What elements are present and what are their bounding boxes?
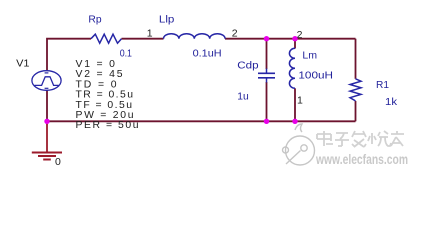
label Cdp (237, 60, 259, 71)
svg-text:100uH: 100uH (298, 71, 333, 82)
wire Cdp bottom lead (266, 82, 268, 121)
svg-text:1k: 1k (385, 97, 398, 108)
node 1 pin number Lm bottom (297, 95, 303, 107)
svg-text:Rp: Rp (88, 15, 102, 26)
wire R1 top drop (355, 39, 357, 79)
svg-text:www.elecfans.com: www.elecfans.com (315, 151, 408, 167)
watermark chinese text 电子发烧友 (317, 131, 404, 147)
wire Rp to Llp (122, 38, 164, 40)
resistor Rp (91, 34, 122, 43)
svg-text:1u: 1u (237, 91, 249, 102)
label 0 ground (55, 156, 61, 168)
watermark logo circle (283, 124, 315, 165)
value 0.1 (120, 48, 133, 59)
wire Llp to R1 top corner (225, 38, 356, 40)
V1 parameter text block (76, 59, 139, 131)
value 0.1uH (193, 49, 222, 60)
wire Cdp top lead (266, 39, 268, 69)
svg-text:PER = 50u: PER = 50u (76, 120, 139, 131)
capacitor Cdp (258, 69, 275, 83)
svg-text:0.1: 0.1 (120, 48, 133, 59)
watermark url text (315, 151, 408, 167)
wire Lm top lead (294, 39, 296, 49)
value 1k (385, 97, 398, 108)
svg-text:V1: V1 (16, 58, 30, 69)
svg-text:R1: R1 (376, 80, 389, 91)
svg-text:Lm: Lm (302, 51, 317, 62)
inductor Llp (164, 34, 226, 39)
junction dot bottom of Cdp (264, 119, 269, 124)
wire ground drop (46, 121, 48, 152)
svg-text:Cdp: Cdp (237, 60, 259, 71)
junction dot ground node left (44, 119, 49, 124)
junction dot node 2 top of Cdp (264, 36, 269, 41)
wire top-left from V1 to Rp (47, 39, 91, 71)
label Llp (159, 15, 175, 26)
svg-text:1: 1 (297, 95, 303, 107)
label V1 (16, 58, 30, 69)
label Lm (302, 51, 317, 62)
svg-text:0: 0 (55, 156, 61, 168)
node 2 pin number (232, 28, 238, 40)
junction dot bottom of Lm (292, 119, 297, 124)
value 100uH (298, 71, 333, 82)
resistor R1 (350, 79, 361, 101)
label R1 (376, 80, 389, 91)
node 1 pin number (147, 28, 153, 40)
svg-text:1: 1 (147, 28, 153, 40)
inductor Lm (289, 48, 295, 88)
wire bottom rail (47, 120, 356, 122)
ground (32, 153, 62, 160)
wire V1 bottom (46, 90, 48, 121)
svg-text:0.1uH: 0.1uH (193, 49, 222, 60)
value 1u (237, 91, 249, 102)
junction dot node 2 top of Lm (292, 36, 297, 41)
voltage source V1 pulse (32, 71, 61, 91)
wire R1 bottom drop (355, 101, 357, 121)
svg-text:Llp: Llp (159, 15, 175, 26)
svg-text:2: 2 (232, 28, 238, 40)
label Rp (88, 15, 102, 26)
node 2 pin number Lm top (297, 29, 303, 41)
wire Lm bottom lead (294, 88, 296, 121)
